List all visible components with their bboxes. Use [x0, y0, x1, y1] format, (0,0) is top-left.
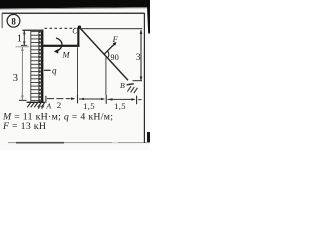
tick at A — [45, 96, 47, 103]
support B — [127, 84, 138, 93]
top extension line to right dim — [80, 28, 142, 29]
svg-text:1,5: 1,5 — [114, 101, 126, 111]
trailing dash — [138, 99, 141, 101]
svg-text:3: 3 — [13, 73, 18, 84]
riser to corner C — [77, 28, 79, 47]
frame left line — [2, 13, 3, 28]
scan artifact: bottom-right blob — [147, 132, 150, 143]
tick 2 — [77, 95, 79, 104]
svg-text:A: A — [45, 102, 51, 111]
left dimension line 1 — [23, 30, 26, 46]
scan artifact: right black strip — [147, 6, 150, 34]
scan artifact: top black band — [0, 0, 150, 9]
extension from F point on diagonal — [105, 58, 107, 96]
svg-text:1: 1 — [17, 34, 22, 45]
svg-text:90: 90 — [110, 53, 118, 62]
top cap tick — [22, 30, 43, 31]
column (bar A to top) — [41, 30, 44, 103]
extension from beam corner — [77, 47, 79, 94]
dashed line from column top to node C — [45, 27, 76, 29]
svg-text:F = 13 кН: F = 13 кН — [2, 121, 46, 132]
B extension line — [133, 80, 143, 81]
diagonal C to B — [79, 27, 128, 80]
svg-text:M: M — [61, 49, 70, 59]
moment M arc — [54, 38, 62, 54]
svg-text:2: 2 — [57, 100, 61, 110]
tick 3 — [105, 95, 107, 104]
svg-text:q: q — [52, 66, 57, 76]
distributed load arrows q — [31, 30, 42, 102]
variant circle 8 — [7, 14, 20, 27]
right dimension line 3 — [140, 29, 143, 81]
svg-text:C: C — [72, 27, 78, 36]
svg-text:1,5: 1,5 — [83, 101, 95, 111]
bottom tick left — [19, 100, 27, 101]
segment 1,5 (first) — [79, 98, 104, 100]
force F vector — [104, 42, 117, 55]
q leader tick — [44, 69, 51, 71]
frame top line — [2, 13, 145, 14]
bottom dimension chain — [46, 47, 142, 104]
bottom rule — [8, 142, 150, 144]
node C dot — [78, 26, 81, 29]
segment 1,5 (second) — [108, 98, 135, 100]
svg-text:В: В — [120, 81, 125, 90]
svg-text:F: F — [112, 35, 119, 44]
left dimension line 3 — [21, 46, 24, 100]
tick under 1 — [21, 45, 27, 46]
tick 4 — [136, 96, 138, 105]
frame right line — [144, 13, 145, 143]
right-angle arc 90 — [107, 51, 108, 58]
segment 2 — [47, 98, 71, 100]
svg-text:3: 3 — [136, 52, 141, 63]
svg-text:8: 8 — [11, 16, 16, 26]
beam — [42, 45, 80, 47]
ground at A — [27, 102, 45, 109]
